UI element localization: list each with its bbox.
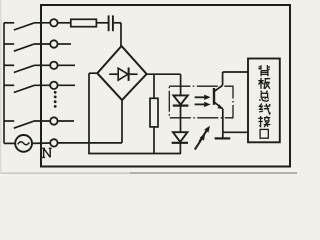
left supply rail (L phase bus): [3, 23, 5, 144]
wire: [96, 22, 108, 24]
label 口: [260, 129, 268, 138]
wire (to LED anode): [180, 74, 182, 95]
capacitor C1: [109, 15, 113, 31]
optocoupler outline: [169, 86, 233, 118]
ellipsis dots (more input channels): [54, 91, 57, 108]
terminal X2: [50, 40, 57, 47]
wire: [57, 84, 75, 86]
common/ground bar: [215, 132, 231, 138]
label 接: [258, 116, 270, 127]
label 总: [259, 91, 268, 102]
label 线: [259, 103, 270, 114]
wire (bridge DC+ rail): [146, 73, 181, 75]
wire (C1 to bridge AC1): [114, 23, 121, 47]
light arrows (LED to phototransistor): [195, 95, 211, 108]
emission arrows of indicator LED: [195, 126, 210, 150]
wire: [34, 84, 50, 86]
AC source G: [4, 135, 32, 152]
switch S5: [4, 121, 34, 128]
switch S3: [4, 65, 34, 72]
resistor R2: [150, 74, 158, 153]
phototransistor VT: [214, 85, 223, 109]
terminal X5: [50, 117, 57, 124]
switch S2: [4, 44, 34, 51]
terminal X1: [50, 19, 57, 26]
optocoupler LED VL1: [173, 95, 189, 105]
label 板: [258, 78, 270, 89]
backplane bus interface box: [248, 59, 280, 143]
wire (collector to interface): [223, 72, 248, 85]
wire: [34, 64, 50, 66]
wire: [34, 120, 50, 122]
terminal N: [50, 139, 57, 146]
paper background: [0, 0, 297, 174]
terminal X3: [50, 62, 57, 69]
terminal X4: [50, 82, 57, 89]
label N: [42, 148, 51, 157]
wire: [57, 120, 74, 122]
wire (bottom bus): [88, 153, 181, 155]
wire: [57, 43, 71, 45]
wire (bridge DC- to bottom bus): [89, 73, 98, 153]
indicator LED VL2: [172, 132, 188, 143]
wire: [34, 22, 50, 24]
wire: [57, 64, 75, 66]
wire: [32, 142, 50, 144]
wire (emitter to interface): [223, 109, 248, 133]
module outline (I/O module boundary): [41, 5, 290, 167]
bridge rectifier VC: [97, 46, 146, 100]
switch S1: [4, 23, 34, 30]
label 背: [259, 65, 270, 76]
wire (indicator LED to bottom bus): [179, 143, 181, 154]
wire (LED cathode to indicator LED): [180, 105, 182, 133]
wire: [34, 43, 50, 45]
switch S4: [4, 85, 34, 92]
resistor R1: [71, 19, 97, 26]
wire: [57, 22, 70, 24]
wire (N to bridge AC2): [57, 99, 122, 143]
